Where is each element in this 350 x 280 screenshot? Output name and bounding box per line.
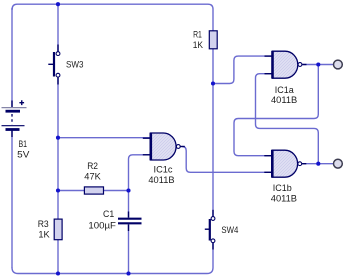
IC1c output stub [181, 146, 185, 148]
wire SW3 branch from top rail [57, 4, 59, 51]
IC1b output bubble [298, 162, 302, 166]
node R2 left junction [56, 188, 60, 192]
IC1c input stubs [143, 137, 151, 139]
wire R1 node to IC1a top input [213, 56, 273, 83]
wire IC1c top input from SW3 node [58, 137, 150, 139]
op-amp IC1a (NAND gate) [265, 51, 307, 79]
node IC1a output junction [316, 62, 320, 66]
svg-text:R2: R2 [87, 161, 98, 171]
wire node B up to IC1c bottom input [129, 155, 151, 191]
wire IC1a output to terminal [302, 64, 333, 66]
battery plate short thick top [6, 110, 21, 113]
IC1c output bubble [176, 145, 180, 149]
wire node A to R3 [57, 191, 59, 220]
wire node B down to C1 [128, 191, 130, 218]
wire left rail (battery branch upper) [11, 8, 13, 107]
svg-text:B1: B1 [19, 139, 28, 149]
svg-text:SW3: SW3 [66, 60, 84, 70]
IC1a output bubble [298, 63, 302, 67]
svg-text:4011B: 4011B [271, 95, 297, 105]
resistor R1 [209, 31, 217, 49]
svg-text:1K: 1K [38, 229, 49, 239]
node A junction (SW3 / IC1c input) [56, 136, 60, 140]
wire IC1a bottom input to IC1b output [256, 74, 319, 164]
SW4 lead stubs [212, 210, 214, 217]
wire R3 to bottom rail [57, 240, 59, 274]
SW3 plunger tick [48, 63, 53, 65]
svg-text:R1: R1 [193, 30, 202, 40]
svg-text:C1: C1 [103, 209, 114, 219]
wire IC1b output to terminal [302, 163, 333, 165]
wire SW3 to node A [57, 77, 59, 190]
IC1b output stub [302, 163, 306, 165]
wire IC1a output feedback to IC1b top input [234, 65, 318, 156]
svg-text:5V: 5V [17, 150, 29, 160]
node C1 bottom junction [126, 271, 130, 275]
wire top rail [12, 4, 213, 31]
IC1a input stubs [265, 55, 273, 57]
op-amp IC1c (NAND gate) [143, 133, 185, 161]
svg-text:100µF: 100µF [88, 220, 116, 230]
switch SW4 [205, 210, 215, 250]
wire bottom rail [12, 243, 213, 274]
wire left rail (battery branch lower) [11, 131, 13, 268]
svg-text:R3: R3 [38, 219, 49, 229]
svg-text:47K: 47K [84, 172, 101, 182]
SW3 top terminal circle [56, 52, 60, 56]
C1 top plate [118, 218, 142, 220]
battery plus sign [19, 100, 24, 105]
resistor R2 [84, 187, 103, 194]
SW3 lead stubs [57, 45, 59, 52]
svg-text:IC1b: IC1b [273, 183, 292, 193]
SW3 plunger bar [53, 52, 55, 77]
battery lead stubs [11, 101, 13, 108]
IC1a output stub [302, 64, 306, 66]
wire R2 right to node B [104, 190, 129, 192]
wire IC1c output to IC1b bottom input [182, 147, 272, 173]
battery plate long bottom [2, 125, 25, 127]
battery B1 [2, 100, 27, 137]
SW4 plunger tick [205, 228, 209, 230]
node top rail junction [56, 2, 60, 6]
node IC1b output junction [316, 162, 320, 166]
node R1/SW4/IC1a junction [211, 81, 215, 85]
battery plate long top [2, 107, 27, 109]
svg-text:1K: 1K [193, 40, 203, 50]
wire R1 to SW4 [212, 49, 214, 217]
IC1b input stubs [264, 155, 272, 157]
svg-text:4011B: 4011B [148, 175, 174, 185]
svg-text:IC1c: IC1c [154, 164, 174, 174]
SW3 bottom terminal circle [56, 73, 60, 77]
node B junction (R2/C1/IC1c) [126, 188, 130, 192]
node R3 bottom junction [56, 271, 60, 275]
SW4 bottom terminal circle [211, 239, 215, 243]
output terminal 1 [334, 60, 343, 69]
SW4 top terminal circle [211, 217, 215, 221]
resistor R3 [54, 219, 62, 240]
svg-text:4011B: 4011B [271, 194, 297, 204]
capacitor C1 [118, 212, 142, 232]
wire C1 to bottom rail [128, 224, 130, 273]
output terminal 2 [334, 159, 343, 168]
SW4 plunger bar [209, 219, 211, 241]
C1 lead stubs [128, 212, 130, 218]
battery dashed middle [11, 114, 13, 125]
svg-text:IC1a: IC1a [275, 85, 294, 95]
switch SW3 [48, 45, 60, 85]
C1 bottom plate [118, 222, 142, 224]
svg-text:SW4: SW4 [221, 225, 238, 235]
op-amp IC1b (NAND gate) [264, 150, 306, 178]
wire R2 left [58, 190, 84, 192]
battery plate short thick bottom [6, 128, 20, 131]
